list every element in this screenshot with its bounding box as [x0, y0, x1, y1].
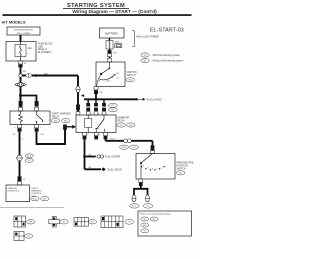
svg-text:: With theft warning system: : With theft warning system — [151, 54, 180, 57]
svg-text:18: 18 — [23, 179, 25, 181]
header rule — [3, 14, 192, 16]
connector pair above PNP switch — [151, 145, 155, 153]
label THEFT WARNING RELAY — [52, 113, 71, 119]
svg-text:M75: M75 — [29, 222, 33, 224]
svg-text:SWITCH: SWITCH — [127, 75, 136, 77]
connector pair below ignition switch — [94, 87, 103, 95]
lens connector on right split — [146, 195, 150, 202]
connector blob on riser — [76, 105, 80, 111]
svg-text:BATTERY: BATTERY — [105, 32, 118, 36]
svg-text:F22: F22 — [128, 222, 131, 224]
svg-text:E1: E1 — [153, 219, 155, 221]
svg-text:E210: E210 — [122, 147, 126, 149]
fold shadow line — [0, 206, 64, 209]
wire stub to relay pin 1 — [20, 96, 22, 102]
svg-text:B1: B1 — [144, 231, 146, 233]
svg-text:M1: M1 — [143, 219, 146, 221]
svg-text:EL-START-03: EL-START-03 — [150, 28, 184, 34]
svg-text:THEFT WARNING: THEFT WARNING — [52, 113, 71, 116]
connector id ovals control unit — [31, 197, 49, 201]
svg-text:F22: F22 — [179, 173, 182, 175]
svg-text:A/T MODELS: A/T MODELS — [2, 19, 26, 24]
legend reference box — [138, 211, 192, 236]
wire stub2 to EL-ASCD — [85, 157, 123, 172]
wire H1 branch to right — [21, 75, 79, 77]
connector pair below relay U1 pin3 — [15, 125, 22, 132]
connector pair below PNP switch — [139, 179, 143, 186]
svg-text:6: 6 — [99, 134, 100, 136]
svg-text:E211: E211 — [132, 206, 136, 208]
wire U-shape from relay U1 pin4 to relay U2 left — [37, 125, 77, 145]
svg-text:F24: F24 — [132, 147, 135, 149]
svg-text:(J/B): (J/B) — [38, 46, 43, 48]
wire fuse to ignition switch — [109, 49, 111, 58]
harness connector row 2 — [86, 108, 106, 111]
wire battery to fuse — [109, 38, 111, 41]
relay U2 INHIBITOR RELAY box — [76, 115, 116, 133]
battery B1 — [100, 28, 125, 38]
wire ignition box to fuse block — [20, 35, 22, 42]
svg-text:(Refer to: (Refer to — [38, 48, 48, 51]
drop from bar to relay U2 pin a — [87, 99, 89, 103]
connector pair on battery wire — [108, 50, 118, 56]
connector face C — [74, 218, 97, 227]
connector oval on H1 — [26, 74, 32, 78]
lens connector on left split — [132, 195, 136, 202]
svg-text:: Without theft warning system: : Without theft warning system — [151, 60, 183, 63]
connector pair above relay U1 pin1 — [18, 100, 23, 111]
refer bracket — [132, 31, 134, 47]
svg-text:RELAY: RELAY — [118, 119, 126, 122]
connector face D — [101, 216, 134, 228]
svg-text:INHIBITOR: INHIBITOR — [118, 117, 130, 119]
relay U1 coil — [19, 111, 23, 125]
drop from bar to relay U2 pin c — [103, 99, 105, 103]
wire stub1 from relay U2 pin d — [83, 139, 121, 158]
pin into ignition switch — [108, 58, 112, 62]
svg-text:To EL-ASCD: To EL-ASCD — [107, 167, 122, 171]
wire split below PNP switch — [134, 186, 148, 195]
svg-text:ACC: ACC — [107, 79, 112, 82]
label IGNITION SWITCH — [126, 72, 137, 82]
relay U2 switch — [96, 115, 105, 133]
connector pair above relay U1 pin2 — [34, 100, 39, 111]
PNP switch internals — [140, 154, 166, 180]
svg-text:B10: B10 — [43, 199, 46, 201]
svg-text:SWITCH: SWITCH — [177, 168, 186, 170]
relay U1 switch — [36, 111, 43, 125]
svg-text:E101: E101 — [27, 156, 31, 158]
svg-text:PARK/NEUTRAL: PARK/NEUTRAL — [177, 161, 195, 164]
svg-text:STARTER: STARTER — [8, 187, 18, 190]
harness connector id ovals — [108, 103, 117, 111]
connector id ovals on H3 — [120, 145, 139, 149]
svg-text:B/W: B/W — [99, 92, 103, 94]
svg-text:E4: E4 — [63, 222, 65, 224]
label THEFT WARNING CONTROL UNIT — [31, 188, 42, 198]
ignition switch internals — [97, 62, 120, 87]
svg-text:E24: E24 — [54, 120, 57, 122]
legend item with theft warning — [141, 53, 180, 57]
svg-text:2: 2 — [87, 134, 88, 136]
control unit box — [6, 185, 30, 202]
wire V1 down from fuse block — [20, 67, 22, 111]
wire H3 drop into PNP switch — [152, 141, 154, 145]
wire branch to relay pin 2 — [21, 96, 37, 102]
fuse F2 30A — [106, 41, 122, 50]
svg-text:FUSE BLOCK: FUSE BLOCK — [38, 44, 53, 46]
svg-text:10A: 10A — [28, 47, 33, 50]
lens connector on riser — [76, 86, 80, 92]
label PARK/NEUTRAL POSITION SWITCH — [176, 161, 194, 175]
connector face E — [14, 232, 33, 241]
connector pair above control unit — [18, 176, 26, 185]
node ignition-on-start box — [7, 27, 40, 35]
splice lens on V1 — [15, 83, 26, 87]
svg-text:TW: TW — [144, 55, 147, 57]
connector id ovals below splits — [130, 204, 153, 208]
connector id ovals on V2 — [25, 154, 33, 163]
wire riser from H1 down to relay U2 — [77, 76, 79, 112]
wire ignition to bus bar — [95, 94, 97, 99]
svg-text:To EL-START: To EL-START — [105, 155, 121, 159]
title STARTING SYSTEM — [63, 3, 129, 9]
svg-text:Refer to EL-POWER.: Refer to EL-POWER. — [137, 35, 160, 38]
svg-text:M75: M75 — [27, 160, 31, 162]
relay U1 THEFT WARNING RELAY box — [10, 111, 50, 125]
svg-text:M10: M10 — [128, 80, 132, 82]
connector pairs below relay U2 — [83, 133, 108, 140]
svg-text:M16: M16 — [129, 125, 133, 127]
connector id ovals relay U2 — [117, 123, 135, 127]
label INHIBITOR RELAY — [118, 117, 130, 122]
harness connector row 1 — [86, 103, 106, 107]
svg-text:1: 1 — [40, 127, 41, 129]
svg-text:30A: 30A — [115, 41, 119, 44]
ignition switch S1 box — [96, 62, 125, 87]
svg-text:IGNITION SWITCH: IGNITION SWITCH — [14, 30, 33, 32]
connector id ovals for relay U1 — [51, 119, 70, 123]
svg-text:INTERLOCK: INTERLOCK — [8, 191, 21, 193]
inline connector on H3 — [124, 139, 132, 143]
svg-text:POSITION: POSITION — [177, 165, 188, 167]
connector face A — [14, 216, 35, 227]
drop from bar to relay U2 pin b — [95, 99, 97, 103]
PNP switch S2 box — [136, 154, 175, 180]
svg-text:WARNING: WARNING — [31, 190, 42, 193]
svg-text:2: 2 — [161, 167, 162, 169]
legend item without theft warning — [141, 59, 183, 63]
node dot on bar and arrow To EL-ASCD — [135, 97, 161, 101]
fuse F (10A) — [15, 42, 32, 62]
svg-text:M77: M77 — [111, 105, 115, 107]
connector below fuse block — [18, 61, 26, 67]
svg-text:ON or START: ON or START — [17, 32, 31, 35]
svg-text:g: g — [28, 53, 29, 55]
svg-text:2: 2 — [15, 127, 16, 129]
svg-text:M75: M75 — [143, 225, 147, 227]
pin labels relay U2 — [91, 114, 108, 116]
svg-text:5: 5 — [18, 100, 19, 102]
svg-text:E25: E25 — [120, 125, 123, 127]
svg-text:F25: F25 — [146, 206, 149, 208]
junction connector circle — [19, 74, 22, 77]
svg-text:Refer to last page (Foldout pa: Refer to last page (Foldout page). — [140, 213, 171, 216]
pin box riser into relay U2 — [76, 112, 80, 115]
svg-text:G/OR: G/OR — [110, 139, 115, 141]
label FUSE BLOCK (J/B) — [38, 44, 53, 54]
svg-text:F24: F24 — [27, 236, 30, 238]
svg-text:To EL-ASCD: To EL-ASCD — [146, 97, 161, 101]
pin boxes into relay U2 top — [86, 112, 106, 115]
svg-text:IGNITION: IGNITION — [127, 72, 138, 74]
svg-text:EL-POWER.): EL-POWER.) — [38, 52, 52, 54]
arrow marker near bar start — [81, 94, 84, 97]
wire V2 from relay U1 pin3 down — [19, 132, 21, 177]
svg-text:M15: M15 — [64, 120, 68, 122]
svg-text:1: 1 — [165, 165, 166, 167]
svg-text:L/OR: L/OR — [40, 134, 45, 136]
relay U2 coil — [85, 115, 92, 133]
svg-text:M101: M101 — [33, 199, 38, 201]
arrow on H1 — [36, 74, 39, 77]
svg-text:E4: E4 — [112, 110, 114, 112]
svg-text:RELAY: RELAY — [52, 116, 60, 119]
inline connector circle on V2 — [17, 155, 23, 161]
junction node A — [19, 94, 22, 97]
bus bar H2 — [84, 98, 136, 100]
connector pair below relay U1 pin4 — [35, 125, 41, 132]
connector face B — [49, 217, 68, 228]
wire H3 from relay U2 pin f to PNP switch — [106, 139, 153, 141]
svg-text:5: 5 — [108, 134, 109, 136]
fuse block box — [6, 42, 36, 62]
svg-text:E25: E25 — [91, 222, 94, 224]
pin labels below relay U2 — [87, 134, 109, 136]
